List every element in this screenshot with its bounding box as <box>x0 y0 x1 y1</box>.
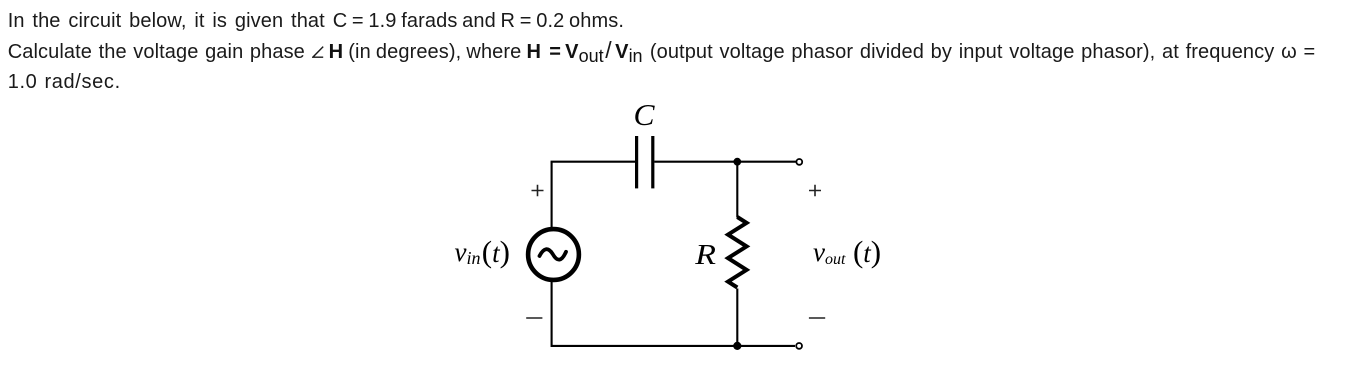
svg-text:vout(t): vout(t) <box>813 234 881 269</box>
svg-text:vin(t): vin(t) <box>455 234 510 269</box>
svg-text:R: R <box>694 238 716 270</box>
svg-text:C: C <box>634 97 655 132</box>
